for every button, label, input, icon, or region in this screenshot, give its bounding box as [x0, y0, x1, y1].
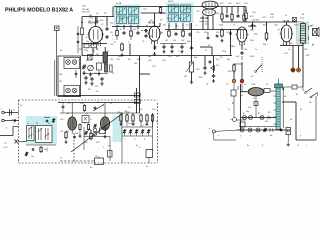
svg-text:C6: C6	[96, 13, 98, 15]
svg-text:C5: C5	[141, 125, 143, 127]
svg-text:(2b): (2b)	[254, 34, 258, 36]
svg-text:NO CAL: NO CAL	[82, 8, 89, 11]
svg-text:56k: 56k	[92, 51, 95, 53]
svg-text:312: 312	[133, 29, 136, 31]
svg-text:4: 4	[139, 147, 140, 149]
svg-text:15: 15	[60, 158, 62, 160]
svg-text:156: 156	[59, 74, 62, 76]
svg-text:R16: R16	[199, 77, 203, 79]
svg-text:R40: R40	[75, 133, 79, 135]
svg-text:7s: 7s	[13, 110, 15, 112]
svg-text:y: y	[300, 135, 301, 137]
svg-text:0.22: 0.22	[270, 17, 274, 19]
svg-text:C27: C27	[240, 45, 244, 47]
svg-text:C3: C3	[104, 125, 106, 127]
svg-text:2k2: 2k2	[96, 54, 99, 56]
svg-text:15: 15	[226, 84, 228, 86]
svg-text:C13: C13	[160, 13, 164, 15]
svg-text:16: 16	[244, 84, 246, 86]
svg-text:7s: 7s	[228, 109, 230, 111]
svg-text:6: 6	[240, 136, 241, 138]
svg-text:1n5: 1n5	[176, 56, 179, 58]
svg-text:220: 220	[181, 40, 184, 42]
svg-text:UCH 81: UCH 81	[88, 23, 97, 25]
svg-text:C12: C12	[110, 59, 114, 61]
svg-text:PHILIPS MODELO B1X82 A: PHILIPS MODELO B1X82 A	[5, 8, 73, 14]
svg-text:a2: a2	[146, 25, 148, 27]
svg-text:47n: 47n	[216, 32, 219, 34]
svg-text:C33: C33	[284, 53, 288, 55]
svg-text:42: 42	[253, 98, 255, 100]
svg-text:82: 82	[96, 156, 98, 158]
svg-text:1k: 1k	[205, 50, 207, 52]
svg-text:39p: 39p	[194, 57, 197, 59]
svg-text:(1a): (1a)	[86, 41, 90, 43]
svg-text:8b: 8b	[270, 135, 272, 137]
svg-text:E2: E2	[258, 113, 260, 115]
svg-text:8n2: 8n2	[236, 56, 239, 58]
svg-text:16: 16	[36, 123, 38, 125]
svg-text:41 4B: 41 4B	[116, 3, 122, 5]
svg-text:UCL 82: UCL 82	[200, 18, 208, 20]
svg-text:7a: 7a	[86, 113, 88, 115]
svg-text:C10: C10	[143, 9, 147, 11]
svg-text:C35: C35	[304, 49, 307, 51]
svg-text:C19: C19	[170, 51, 174, 53]
svg-text:R9: R9	[128, 59, 130, 61]
svg-text:g: g	[100, 29, 101, 31]
svg-text:g1: g1	[88, 32, 90, 34]
svg-text:125: 125	[95, 86, 98, 88]
svg-text:NO CON: NO CON	[82, 12, 90, 14]
svg-text:56k: 56k	[244, 49, 247, 51]
svg-text:45a: 45a	[97, 102, 100, 104]
svg-text:B1: B1	[302, 14, 304, 16]
svg-text:R20: R20	[250, 40, 254, 42]
svg-text:(1b): (1b)	[82, 6, 86, 8]
svg-text:2b: 2b	[44, 149, 46, 151]
svg-text:C7: C7	[101, 24, 103, 26]
svg-text:e1: e1	[133, 124, 135, 126]
svg-text:E1: E1	[243, 113, 245, 115]
svg-text:43: 43	[266, 84, 268, 86]
svg-text:680: 680	[148, 56, 151, 58]
svg-text:≠: ≠	[232, 101, 234, 105]
svg-text:9: 9	[262, 145, 263, 147]
svg-text:220k: 220k	[270, 14, 274, 16]
svg-text:D1: D1	[220, 57, 222, 59]
svg-text:R2: R2	[104, 13, 106, 15]
svg-text:12: 12	[205, 24, 207, 26]
svg-text:C46: C46	[84, 142, 88, 144]
svg-text:S3: S3	[309, 102, 311, 104]
svg-text:C21: C21	[196, 32, 200, 34]
svg-text:os2: os2	[40, 151, 43, 153]
svg-text:10: 10	[297, 145, 299, 147]
svg-text:C31: C31	[252, 12, 256, 14]
svg-text:42: 42	[206, 84, 208, 86]
svg-text:L1: L1	[84, 123, 86, 125]
svg-text:R15: R15	[216, 13, 220, 15]
svg-text:C22: C22	[196, 11, 200, 13]
svg-text:270k: 270k	[84, 50, 88, 52]
svg-text:1n: 1n	[255, 49, 257, 51]
svg-text:b2: b2	[136, 145, 138, 147]
svg-text:2c: 2c	[60, 102, 62, 104]
svg-text:6,3: 6,3	[86, 37, 89, 39]
svg-text:68: 68	[152, 41, 154, 43]
svg-text:R11: R11	[134, 63, 137, 65]
svg-text:C29: C29	[262, 17, 266, 19]
svg-text:R30: R30	[263, 44, 266, 46]
svg-text:158: 158	[126, 112, 129, 114]
svg-text:C25: C25	[228, 3, 232, 5]
svg-text:C11: C11	[110, 44, 113, 46]
svg-text:(4a): (4a)	[110, 23, 114, 25]
svg-text:1k: 1k	[285, 15, 287, 17]
svg-text:470k: 470k	[250, 56, 254, 58]
svg-text:4B 4C: 4B 4C	[168, 1, 174, 3]
svg-text:1M: 1M	[184, 76, 187, 78]
svg-text:220k: 220k	[222, 51, 226, 53]
svg-text:b: b	[209, 128, 210, 130]
svg-text:5: 5	[312, 45, 313, 47]
svg-text:(4d): (4d)	[187, 41, 191, 43]
svg-text:47: 47	[114, 42, 116, 44]
svg-text:p: p	[203, 9, 204, 11]
svg-text:C23: C23	[196, 69, 200, 71]
svg-text:47: 47	[120, 29, 122, 31]
svg-text:8: 8	[276, 125, 277, 127]
svg-text:R3: R3	[90, 59, 92, 61]
svg-text:e: e	[245, 123, 246, 125]
svg-text:g2: g2	[278, 29, 280, 31]
svg-text:R18: R18	[236, 3, 240, 5]
svg-text:45: 45	[300, 109, 302, 111]
svg-text:8n2: 8n2	[227, 59, 230, 61]
svg-text:(parte tri): (parte tri)	[200, 20, 208, 23]
svg-text:C6: C6	[98, 41, 100, 43]
svg-text:157: 157	[59, 81, 62, 83]
svg-text:R26: R26	[306, 55, 310, 57]
svg-text:15b: 15b	[66, 131, 69, 133]
svg-text:C8: C8	[110, 32, 112, 34]
svg-text:C26: C26	[244, 3, 248, 5]
svg-text:a1: a1	[241, 95, 243, 97]
svg-text:270k: 270k	[89, 18, 93, 20]
svg-text:15a: 15a	[31, 156, 34, 158]
svg-text:(1): (1)	[88, 21, 91, 23]
svg-text:50: 50	[107, 51, 109, 53]
svg-text:(2a) (2b): (2a) (2b)	[252, 20, 259, 22]
svg-text:C1: C1	[20, 105, 22, 107]
svg-text:IF2: IF2	[179, 18, 182, 20]
svg-text:R1: R1	[79, 49, 81, 51]
svg-text:R21: R21	[263, 25, 267, 27]
svg-text:E3: E3	[268, 112, 270, 114]
svg-text:1k2: 1k2	[118, 56, 121, 58]
svg-text:42.5: 42.5	[250, 16, 254, 18]
svg-text:z: z	[306, 145, 307, 147]
svg-text:312: 312	[145, 32, 148, 34]
svg-text:(2b): (2b)	[250, 30, 254, 32]
svg-text:k: k	[112, 35, 113, 37]
svg-text:L6: L6	[110, 103, 112, 105]
svg-text:C20: C20	[162, 60, 166, 62]
svg-text:158: 158	[60, 131, 63, 133]
svg-text:S1: S1	[296, 94, 298, 96]
svg-text:C9: C9	[142, 41, 144, 43]
svg-text:UF 85: UF 85	[148, 23, 155, 25]
svg-text:osc: osc	[108, 145, 111, 147]
svg-text:27k: 27k	[216, 65, 219, 67]
svg-text:5: 5	[103, 147, 104, 149]
svg-text:R10: R10	[137, 59, 141, 61]
svg-text:S2: S2	[251, 76, 253, 78]
svg-text:IF1: IF1	[117, 12, 120, 14]
svg-text:C47: C47	[96, 142, 100, 144]
svg-text:25: 25	[112, 73, 114, 75]
svg-text:(2.2): (2.2)	[300, 18, 304, 20]
svg-text:(2a): (2a)	[216, 59, 220, 61]
svg-text:C18: C18	[168, 56, 172, 58]
svg-text:R7: R7	[150, 20, 152, 22]
svg-text:3: 3	[128, 42, 129, 44]
svg-text:T1: T1	[302, 27, 304, 29]
svg-text:8b: 8b	[156, 121, 158, 123]
svg-text:x: x	[218, 135, 219, 137]
svg-text:100p: 100p	[219, 25, 223, 27]
svg-text:C40: C40	[116, 59, 120, 61]
svg-text:R17: R17	[220, 3, 224, 5]
svg-text:7a: 7a	[13, 123, 15, 125]
svg-text:7: 7	[250, 136, 251, 138]
svg-text:L5: L5	[68, 103, 70, 105]
svg-text:R5: R5	[88, 89, 90, 91]
svg-text:47k: 47k	[173, 40, 176, 42]
svg-text:58: 58	[160, 20, 162, 22]
svg-text:0.1: 0.1	[288, 49, 291, 51]
svg-text:47k: 47k	[232, 46, 235, 48]
svg-text:7s: 7s	[90, 119, 92, 121]
svg-text:15: 15	[6, 128, 8, 130]
svg-text:C15: C15	[148, 60, 152, 62]
svg-text:C36: C36	[298, 40, 302, 42]
svg-text:2a: 2a	[27, 123, 29, 125]
svg-text:C30: C30	[274, 25, 278, 27]
svg-text:12k: 12k	[94, 73, 97, 75]
svg-text:e2: e2	[145, 124, 147, 126]
svg-text:C2: C2	[128, 107, 130, 109]
svg-text:1k: 1k	[233, 25, 235, 27]
svg-text:R19: R19	[228, 71, 232, 73]
